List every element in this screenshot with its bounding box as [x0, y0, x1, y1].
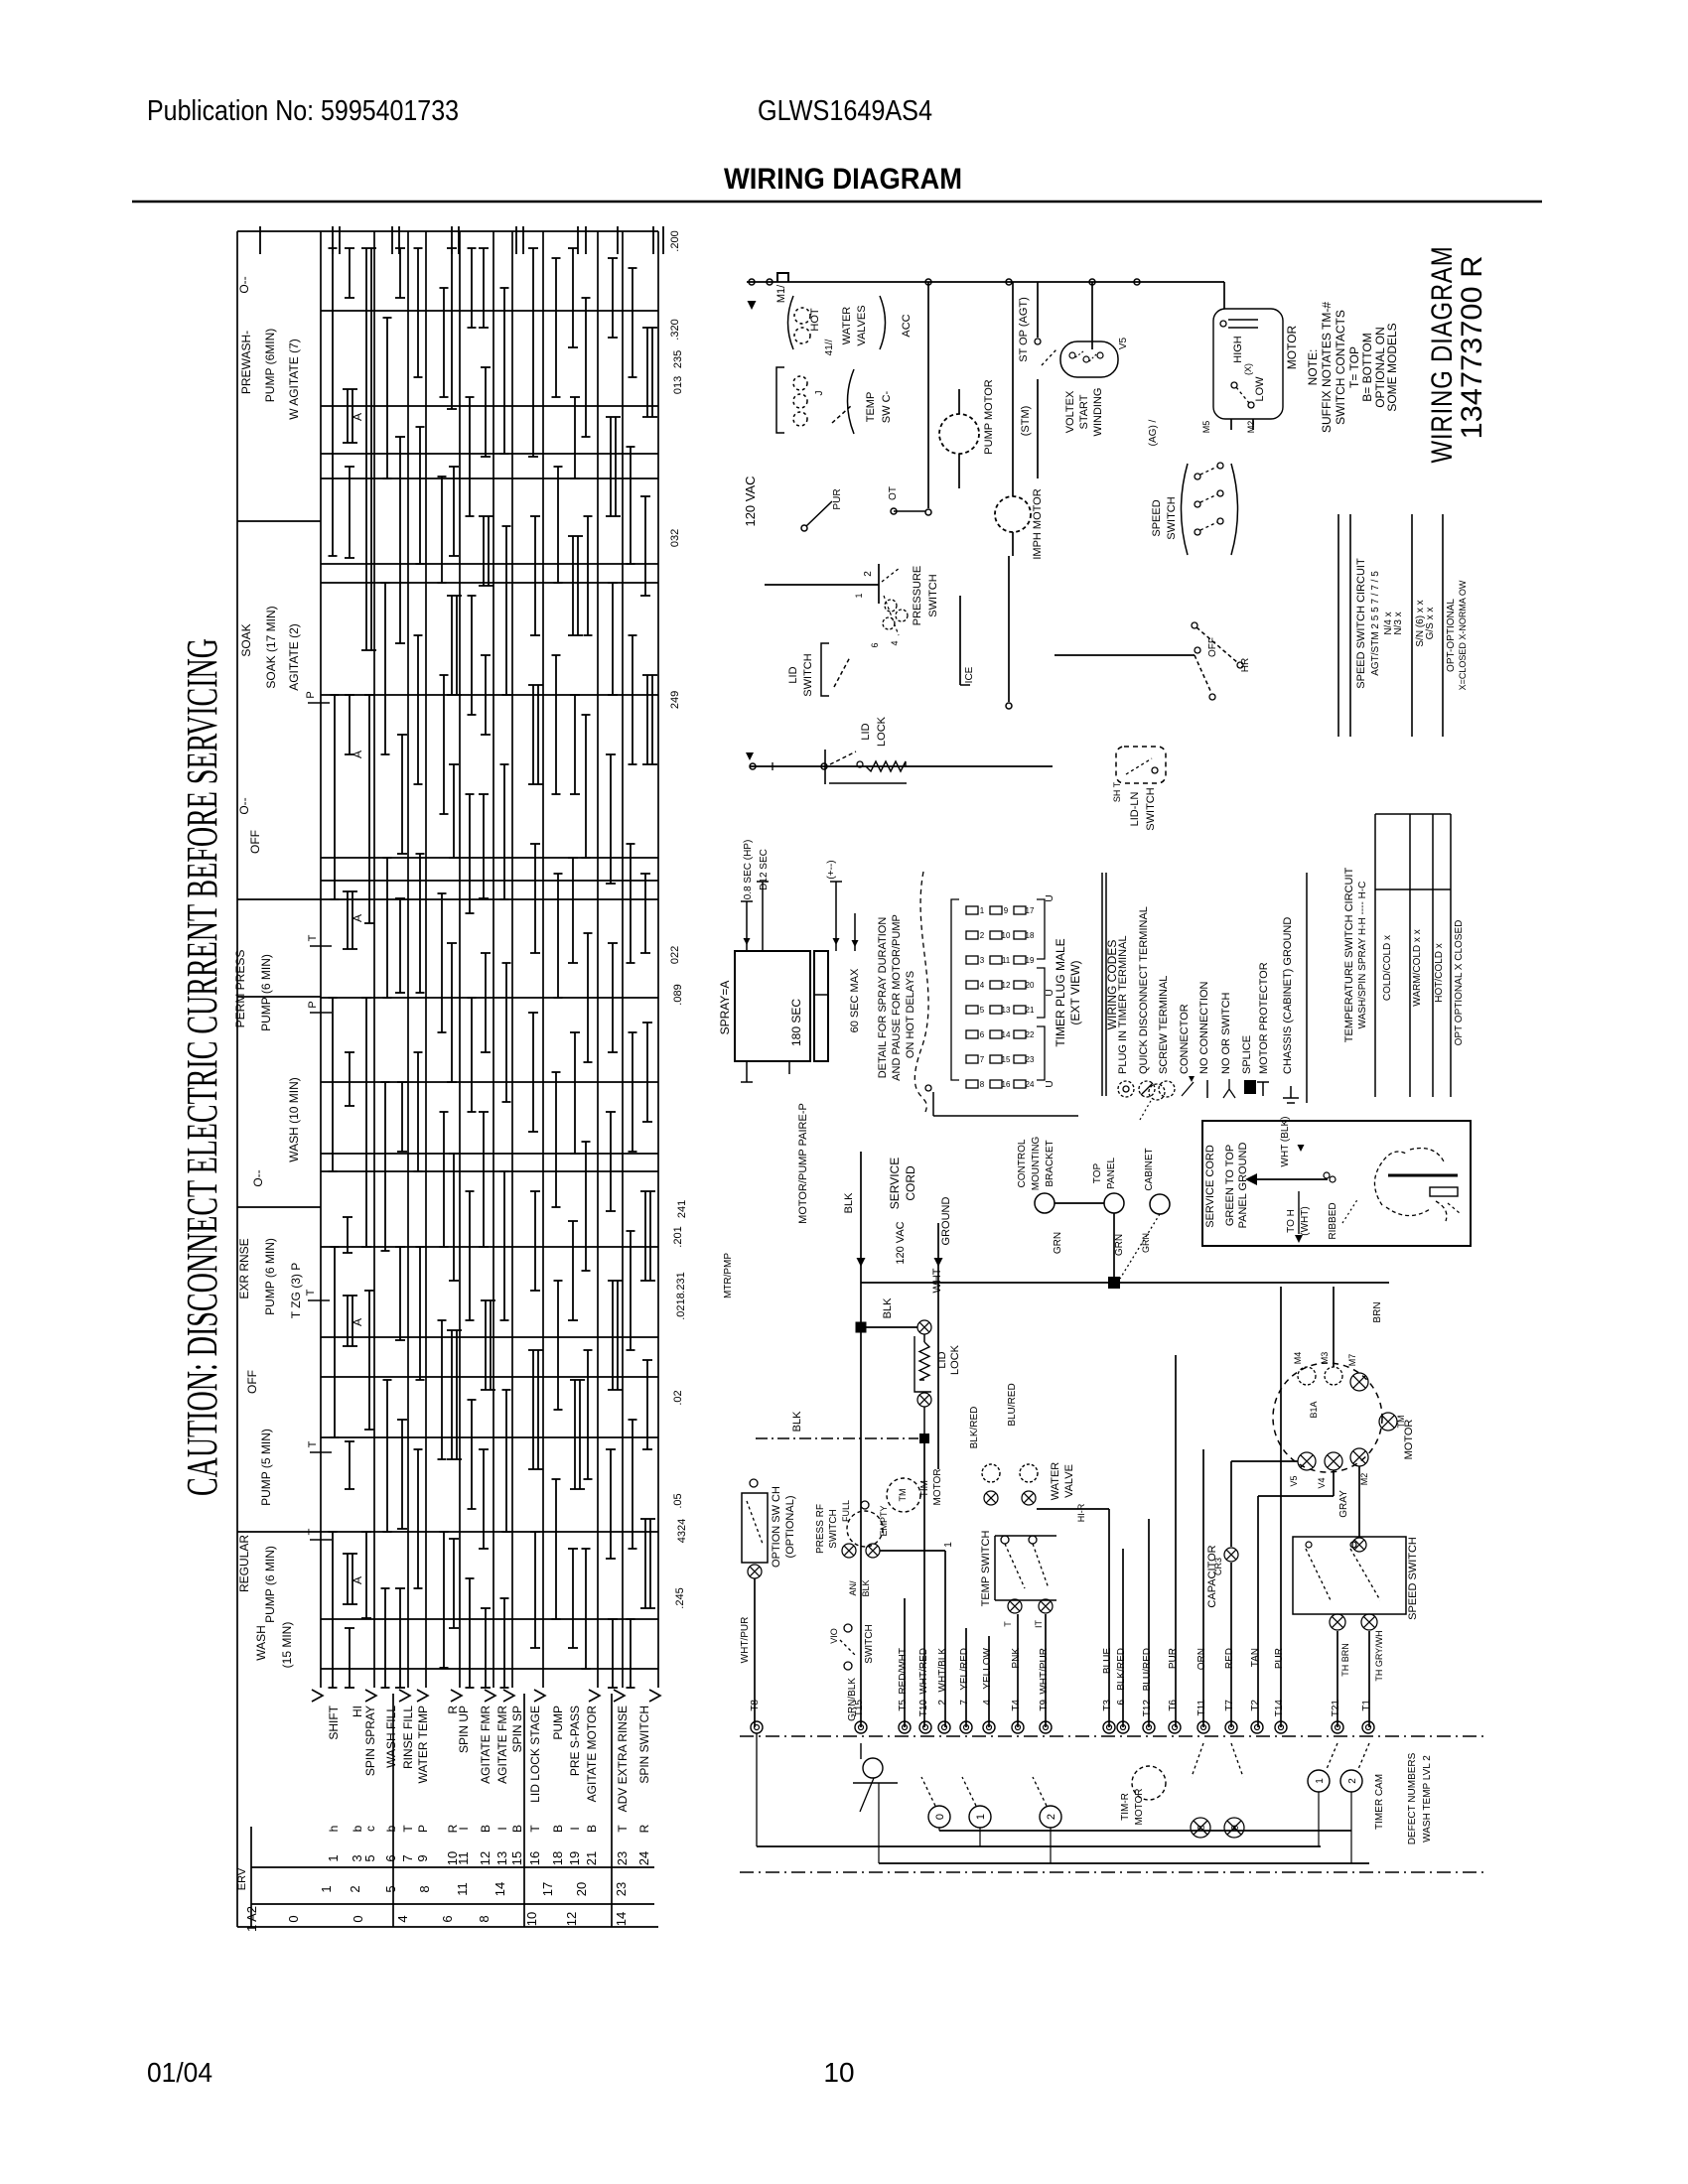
svg-text:GRN: GRN: [1053, 1232, 1063, 1254]
svg-text:HOT: HOT: [809, 308, 821, 332]
svg-text:BLK: BLK: [791, 1411, 803, 1432]
svg-text:GRN: GRN: [1114, 1234, 1125, 1256]
svg-text:T9: T9: [1039, 1700, 1050, 1711]
svg-text:GREEN TO TOP: GREEN TO TOP: [1224, 1145, 1236, 1226]
svg-text:.200: .200: [669, 230, 681, 251]
svg-text:CONNECTOR: CONNECTOR: [1179, 1004, 1191, 1074]
svg-text:b: b: [384, 1825, 398, 1832]
svg-text:WASH FILL: WASH FILL: [384, 1706, 398, 1768]
svg-text:T3: T3: [1102, 1700, 1113, 1711]
svg-text:T4: T4: [1011, 1700, 1022, 1711]
svg-text:PRESS RF: PRESS RF: [815, 1504, 826, 1554]
svg-text:M2: M2: [1246, 421, 1256, 434]
svg-text:CHASSIS (CABINET) GROUND: CHASSIS (CABINET) GROUND: [1282, 917, 1294, 1074]
svg-text:BLUE: BLUE: [1102, 1648, 1113, 1674]
svg-text:21: 21: [1026, 1006, 1035, 1015]
svg-text:10: 10: [1002, 931, 1011, 940]
svg-text:10: 10: [823, 2057, 854, 2088]
svg-text:FULL: FULL: [841, 1500, 851, 1522]
svg-text:6: 6: [1116, 1700, 1127, 1706]
svg-text:(+--): (+--): [826, 860, 837, 879]
svg-text:Publication No: 5995401733: Publication No: 5995401733: [147, 95, 459, 127]
svg-text:B: B: [585, 1825, 599, 1833]
svg-text:(X): (X): [1243, 363, 1253, 375]
svg-text:TIM-R: TIM-R: [1120, 1793, 1131, 1821]
svg-text:PUMP: PUMP: [551, 1706, 565, 1740]
svg-text:SCREW TERMINAL: SCREW TERMINAL: [1158, 976, 1170, 1074]
svg-text:BLU/RED: BLU/RED: [1142, 1648, 1153, 1691]
svg-text:V5: V5: [1289, 1475, 1299, 1486]
svg-text:1: 1: [1315, 1778, 1326, 1784]
svg-text:60 SEC MAX: 60 SEC MAX: [849, 968, 861, 1032]
svg-text:T7: T7: [1224, 1700, 1235, 1711]
svg-text:0: 0: [286, 1915, 301, 1922]
svg-text:2: 2: [937, 1700, 948, 1706]
svg-text:241: 241: [676, 1200, 688, 1218]
svg-text:A: A: [351, 751, 364, 758]
svg-text:15: 15: [1002, 1055, 1011, 1064]
svg-text:17: 17: [540, 1882, 555, 1896]
svg-text:BLU/RED: BLU/RED: [1007, 1383, 1018, 1426]
svg-text:.231: .231: [675, 1272, 687, 1293]
svg-text:WHT/PUR: WHT/PUR: [740, 1617, 751, 1664]
svg-text:19: 19: [567, 1851, 582, 1865]
svg-text:MOUNTING: MOUNTING: [1031, 1137, 1042, 1191]
svg-text:M4: M4: [1293, 1352, 1303, 1365]
svg-text:WATER: WATER: [1050, 1462, 1061, 1501]
svg-text:VALVE: VALVE: [1063, 1464, 1075, 1498]
svg-text:.089: .089: [672, 984, 684, 1005]
svg-text:BLK/RED: BLK/RED: [969, 1407, 980, 1449]
svg-text:SPLICE: SPLICE: [1241, 1035, 1253, 1074]
svg-text:WIRING DIAGRAM: WIRING DIAGRAM: [1426, 246, 1459, 464]
svg-text:SPIN SPRAY: SPIN SPRAY: [363, 1706, 377, 1776]
svg-text:11: 11: [1002, 956, 1011, 965]
svg-text:TO H: TO H: [1286, 1209, 1297, 1233]
svg-text:U: U: [1045, 894, 1055, 901]
svg-text:TEMP SWITCH: TEMP SWITCH: [980, 1531, 992, 1607]
svg-text:START: START: [1078, 394, 1090, 429]
svg-text:WHT: WHT: [931, 1268, 943, 1293]
svg-text:PNK: PNK: [1011, 1648, 1022, 1669]
svg-text:BRACKET: BRACKET: [1045, 1140, 1055, 1186]
svg-text:4: 4: [982, 1700, 993, 1706]
svg-text:OT: OT: [888, 486, 899, 500]
svg-text:20: 20: [574, 1882, 589, 1896]
svg-text:6: 6: [980, 1030, 985, 1039]
svg-text:013: 013: [672, 376, 684, 394]
svg-text:CR3: CR3: [1213, 1558, 1223, 1575]
svg-text:4: 4: [395, 1915, 410, 1922]
svg-text:WASH/SPIN SPRAY H-H ----: WASH/SPIN SPRAY H-H ---- H-C: [1357, 882, 1368, 1029]
svg-text:BLK: BLK: [882, 1297, 894, 1318]
svg-text:8: 8: [1196, 1825, 1207, 1831]
svg-text:2: 2: [980, 931, 985, 940]
svg-text:QUICK DISCONNECT TERMINAL: QUICK DISCONNECT TERMINAL: [1138, 906, 1150, 1074]
svg-text:BLK/RED: BLK/RED: [1116, 1648, 1127, 1691]
svg-text:(STM): (STM): [1020, 406, 1032, 437]
svg-text:PUMP (6MIN): PUMP (6MIN): [263, 329, 277, 402]
svg-text:OPT OPTIONAL X CLOSED: OPT OPTIONAL X CLOSED: [1454, 920, 1465, 1046]
svg-text:SHIFT: SHIFT: [327, 1705, 341, 1739]
svg-text:PLUG IN TIMER TERMINAL: PLUG IN TIMER TERMINAL: [1117, 935, 1129, 1074]
svg-text:TEMP: TEMP: [865, 392, 877, 423]
svg-text:T: T: [616, 1825, 630, 1833]
svg-text:AGITATE MOTOR: AGITATE MOTOR: [585, 1706, 599, 1803]
svg-text:ADV EXTRA RINSE: ADV EXTRA RINSE: [616, 1706, 630, 1812]
svg-text:OFF: OFF: [248, 830, 262, 854]
svg-text:WIRING DIAGRAM: WIRING DIAGRAM: [724, 163, 962, 196]
svg-text:180 SEC: 180 SEC: [789, 999, 803, 1046]
svg-text:J: J: [814, 391, 825, 396]
svg-text:PUMP (5 MIN): PUMP (5 MIN): [259, 1429, 273, 1506]
svg-text:U: U: [1045, 1080, 1055, 1087]
svg-text:B: B: [479, 1825, 492, 1833]
svg-text:SWITCH: SWITCH: [828, 1509, 839, 1548]
svg-text:RED: RED: [1224, 1648, 1235, 1669]
svg-text:PUR: PUR: [1168, 1648, 1179, 1669]
svg-text:M1/: M1/: [775, 284, 787, 303]
svg-text:M3: M3: [1320, 1352, 1330, 1365]
svg-text:LOCK: LOCK: [876, 716, 888, 747]
svg-text:T11: T11: [1196, 1700, 1207, 1716]
svg-text:CAUTION: DISCONNECT ELECTRIC: CAUTION: DISCONNECT ELECTRIC CURRENT BEF…: [178, 638, 226, 1496]
svg-text:14: 14: [614, 1912, 629, 1926]
svg-text:A: A: [351, 1318, 364, 1326]
svg-text:8: 8: [980, 1080, 985, 1089]
svg-text:14: 14: [492, 1882, 507, 1896]
svg-text:SWITCH CONTACTS: SWITCH CONTACTS: [1334, 310, 1347, 425]
svg-text:MTR/PMP: MTR/PMP: [723, 1253, 734, 1298]
svg-text:24: 24: [1026, 1080, 1035, 1089]
svg-text:LID: LID: [787, 666, 799, 683]
svg-text:B: B: [510, 1825, 524, 1833]
svg-text:LID LOCK STAGE: LID LOCK STAGE: [528, 1706, 542, 1803]
svg-text:0: 0: [351, 1915, 365, 1922]
svg-text:I: I: [495, 1827, 509, 1830]
svg-text:T2: T2: [1250, 1700, 1261, 1711]
svg-text:PUR: PUR: [1274, 1648, 1285, 1669]
svg-text:BLK: BLK: [843, 1192, 855, 1213]
svg-text:15: 15: [509, 1851, 524, 1865]
svg-text:SWITCH: SWITCH: [927, 574, 939, 616]
svg-text:2: 2: [348, 1885, 362, 1892]
svg-text:WASH TEMP LVL 2: WASH TEMP LVL 2: [1422, 1755, 1433, 1843]
svg-text:OFF: OFF: [245, 1370, 259, 1394]
svg-text:5: 5: [383, 1885, 398, 1892]
svg-text:T: T: [307, 934, 319, 941]
svg-text:(15 MIN): (15 MIN): [280, 1622, 294, 1669]
svg-text:TOP: TOP: [1092, 1162, 1103, 1183]
svg-text:16: 16: [1002, 1080, 1011, 1089]
svg-text:ERV: ERV: [236, 1867, 248, 1890]
svg-text:B= BOTTOM: B= BOTTOM: [1360, 333, 1374, 401]
svg-text:T: T: [307, 1528, 319, 1535]
svg-text:PREWASH-: PREWASH-: [239, 331, 253, 394]
svg-text:SERVICE CORD: SERVICE CORD: [1204, 1145, 1216, 1228]
svg-text:TAN: TAN: [1250, 1648, 1261, 1667]
svg-text:TIM-: TIM-: [919, 1477, 930, 1498]
svg-text:TH BRN: TH BRN: [1340, 1643, 1350, 1677]
svg-text:21: 21: [584, 1851, 599, 1865]
svg-text:DEFECT NUMBERS: DEFECT NUMBERS: [1407, 1752, 1418, 1844]
svg-text:WASH (10 MIN): WASH (10 MIN): [287, 1077, 301, 1162]
svg-text:ICE: ICE: [964, 666, 975, 683]
svg-text:GROUND: GROUND: [940, 1197, 952, 1246]
svg-text:022: 022: [669, 946, 681, 964]
svg-text:PUMP (6 MIN): PUMP (6 MIN): [263, 1238, 277, 1315]
svg-text:WINDING: WINDING: [1092, 388, 1104, 437]
svg-text:10: 10: [524, 1912, 539, 1926]
svg-text:YELLOW: YELLOW: [982, 1647, 993, 1689]
svg-text:1: 1: [326, 1854, 341, 1861]
svg-text:13: 13: [1002, 1006, 1011, 1015]
svg-text:VIO: VIO: [829, 1628, 839, 1644]
svg-text:MOTOR: MOTOR: [1134, 1788, 1145, 1825]
svg-text:A: A: [351, 1576, 364, 1584]
svg-text:EMPTY: EMPTY: [879, 1505, 889, 1536]
svg-text:235: 235: [672, 350, 684, 368]
svg-text:SPEED: SPEED: [1151, 499, 1163, 536]
svg-text:AGT/STM 2 5 5 7 / 7 /: AGT/STM 2 5 5 7 / 7 / 5: [1370, 571, 1381, 676]
svg-text:CABINET: CABINET: [1144, 1148, 1155, 1190]
svg-text:ACC: ACC: [901, 314, 913, 337]
svg-text:AGITATE FMR: AGITATE FMR: [495, 1706, 509, 1784]
svg-text:WHT (BLK): WHT (BLK): [1280, 1117, 1291, 1167]
svg-text:M2: M2: [1359, 1473, 1369, 1486]
svg-text:41//: 41//: [824, 339, 835, 355]
svg-text:T: T: [528, 1825, 542, 1833]
svg-text:LOCK: LOCK: [949, 1344, 961, 1375]
svg-text:VALVES: VALVES: [856, 305, 868, 345]
svg-text:WATER: WATER: [841, 307, 853, 345]
svg-text:SPEED SWITCH: SPEED SWITCH: [1407, 1537, 1419, 1620]
svg-text:B1A: B1A: [1309, 1401, 1319, 1418]
svg-text:AND PAUSE FOR MOTOR/PUMP: AND PAUSE FOR MOTOR/PUMP: [891, 914, 903, 1081]
svg-text:22: 22: [1026, 1030, 1035, 1039]
svg-text:B: B: [551, 1825, 565, 1833]
svg-text:HIGH: HIGH: [1232, 336, 1244, 363]
svg-text:.05: .05: [672, 1493, 684, 1508]
svg-text:EXR RNSE: EXR RNSE: [237, 1238, 251, 1298]
svg-text:c: c: [363, 1826, 377, 1832]
svg-text:120 VAC: 120 VAC: [895, 1221, 907, 1264]
svg-text:6: 6: [440, 1915, 455, 1922]
svg-text:P: P: [305, 691, 317, 698]
svg-text:LID-LN: LID-LN: [1129, 792, 1141, 827]
svg-text:14: 14: [1002, 1030, 1011, 1039]
svg-text:4: 4: [890, 640, 900, 645]
svg-text:HI-R: HI-R: [1076, 1503, 1086, 1522]
svg-text:PANEL: PANEL: [1106, 1158, 1117, 1189]
svg-text:0: 0: [934, 1814, 946, 1820]
svg-text:23: 23: [615, 1851, 630, 1865]
svg-text:1: 1: [975, 1814, 987, 1820]
svg-text:P: P: [416, 1825, 430, 1833]
svg-text:19: 19: [1026, 956, 1035, 965]
svg-text:SH T: SH T: [1112, 781, 1122, 802]
svg-text:GLWS1649AS4: GLWS1649AS4: [758, 95, 932, 127]
svg-text:SWITCH: SWITCH: [864, 1624, 875, 1663]
svg-text:A: A: [351, 413, 364, 421]
svg-text:TM: TM: [898, 1489, 908, 1502]
svg-text:T21: T21: [1331, 1700, 1341, 1717]
svg-text:7: 7: [400, 1854, 415, 1861]
svg-text:VOLTEX: VOLTEX: [1064, 390, 1076, 433]
svg-text:9: 9: [1230, 1825, 1241, 1831]
svg-text:LID: LID: [860, 723, 872, 740]
svg-text:RIBBED: RIBBED: [1328, 1202, 1338, 1239]
svg-text:HI: HI: [351, 1706, 364, 1717]
svg-text:.245: .245: [674, 1587, 686, 1608]
svg-text:2: 2: [1347, 1778, 1358, 1784]
svg-text:IT: IT: [1034, 1619, 1044, 1628]
svg-text:T= TOP: T= TOP: [1347, 346, 1361, 388]
svg-text:(OPTIONAL): (OPTIONAL): [784, 1496, 796, 1559]
svg-text:P: P: [307, 1001, 319, 1008]
svg-text:23: 23: [614, 1882, 629, 1896]
svg-text:A: A: [351, 914, 364, 922]
svg-text:249: 249: [669, 691, 681, 709]
svg-text:OPTION SW CH: OPTION SW CH: [771, 1486, 782, 1568]
svg-text:CORD: CORD: [904, 1165, 917, 1201]
svg-text:SOAK: SOAK: [239, 623, 253, 656]
svg-text:NOTE:: NOTE:: [1306, 349, 1320, 386]
svg-text:12: 12: [564, 1912, 579, 1926]
svg-text:T: T: [307, 1440, 319, 1447]
svg-text:V5: V5: [1118, 337, 1129, 349]
svg-text:WHT/BLK: WHT/BLK: [937, 1648, 948, 1693]
svg-text:2: 2: [863, 571, 874, 577]
svg-text:NO OR SWITCH: NO OR SWITCH: [1220, 992, 1232, 1074]
svg-text:GRN/BLK: GRN/BLK: [847, 1678, 858, 1721]
svg-text:SOAK (17 MIN): SOAK (17 MIN): [264, 606, 278, 688]
svg-text:GRN: GRN: [1141, 1233, 1151, 1253]
svg-text:O--: O--: [237, 276, 251, 293]
svg-text:SWITCH: SWITCH: [802, 653, 814, 696]
svg-text:PRE S-PASS: PRE S-PASS: [568, 1706, 582, 1776]
svg-text:SERVICE: SERVICE: [888, 1158, 902, 1209]
svg-text:T5: T5: [898, 1700, 909, 1711]
svg-text:(AG) /: (AG) /: [1148, 419, 1159, 446]
svg-text:8: 8: [477, 1915, 492, 1922]
svg-text:1: 1: [980, 906, 985, 915]
svg-text:NO CONNECTION: NO CONNECTION: [1198, 981, 1210, 1074]
svg-text:T: T: [401, 1825, 415, 1833]
svg-text:5: 5: [980, 1006, 985, 1015]
svg-text:T: T: [305, 1289, 317, 1296]
svg-text:SPIN UP: SPIN UP: [457, 1706, 471, 1753]
svg-text:18: 18: [550, 1851, 565, 1865]
svg-text:SWITCH: SWITCH: [1166, 496, 1178, 539]
svg-text:h: h: [327, 1826, 341, 1833]
svg-text:ORN: ORN: [1196, 1648, 1207, 1670]
svg-text:9: 9: [1004, 906, 1009, 915]
svg-text:(WHT): (WHT): [1300, 1206, 1311, 1235]
svg-text:4: 4: [980, 981, 985, 990]
svg-text:18: 18: [1026, 931, 1035, 940]
svg-text:1: 1: [319, 1885, 334, 1892]
svg-text:M7: M7: [1347, 1354, 1357, 1367]
svg-text:SUFFIX NOTATES TM-#: SUFFIX NOTATES TM-#: [1320, 302, 1334, 433]
svg-text:I: I: [568, 1827, 582, 1830]
svg-text:RED/WHT: RED/WHT: [898, 1648, 909, 1695]
svg-text:.02: .02: [672, 1390, 684, 1405]
svg-text:24: 24: [636, 1851, 651, 1865]
svg-text:T12: T12: [1142, 1700, 1153, 1717]
svg-text:13: 13: [494, 1851, 509, 1865]
svg-text:CONTROL: CONTROL: [1017, 1139, 1028, 1187]
svg-text:ON HOT DELAYS: ON HOT DELAYS: [905, 971, 916, 1058]
svg-text:PERM PRESS: PERM PRESS: [233, 950, 247, 1028]
svg-text:01/04: 01/04: [147, 2057, 212, 2088]
svg-text:MOTOR: MOTOR: [1403, 1420, 1415, 1460]
svg-text:AGITATE (2): AGITATE (2): [287, 623, 301, 691]
svg-text:120 VAC: 120 VAC: [743, 476, 758, 526]
svg-text:W AGITATE (7): W AGITATE (7): [287, 339, 301, 420]
svg-text:(EXT VIEW): (EXT VIEW): [1068, 960, 1082, 1024]
svg-text:12: 12: [478, 1851, 492, 1865]
svg-text:7: 7: [980, 1055, 985, 1064]
svg-text:PUMP (6 MIN): PUMP (6 MIN): [259, 954, 273, 1031]
svg-text:TIMER CAM: TIMER CAM: [1374, 1774, 1385, 1830]
svg-text:MOTOR PROTECTOR: MOTOR PROTECTOR: [1258, 962, 1270, 1074]
svg-text:T ZG (3) P: T ZG (3) P: [289, 1263, 303, 1318]
svg-text:.201: .201: [672, 1226, 684, 1247]
svg-text:COLD/COLD x: COLD/COLD x: [1382, 935, 1393, 1001]
svg-text:6: 6: [870, 642, 880, 647]
svg-text:PRESSURE: PRESSURE: [912, 566, 923, 626]
svg-text:b: b: [351, 1825, 364, 1832]
svg-text:SPRAY=A: SPRAY=A: [718, 981, 732, 1035]
svg-text:SWITCH: SWITCH: [1145, 787, 1157, 830]
svg-text:WATER TEMP: WATER TEMP: [416, 1706, 430, 1783]
svg-text:OFF: OFF: [1207, 637, 1218, 657]
svg-text:TEMPERATURE SWITCH CIRCUIT: TEMPERATURE SWITCH CIRCUIT: [1343, 868, 1355, 1043]
svg-text:0.8 SEC (HP): 0.8 SEC (HP): [743, 840, 754, 900]
svg-text:PUMP MOTOR: PUMP MOTOR: [983, 379, 995, 454]
svg-text:PUMP (6 MIN): PUMP (6 MIN): [263, 1546, 277, 1623]
svg-text:T14: T14: [1274, 1700, 1285, 1717]
svg-text:RINSE FILL: RINSE FILL: [401, 1706, 415, 1769]
svg-text:23: 23: [1026, 1055, 1035, 1064]
svg-text:SW C-: SW C-: [881, 390, 893, 423]
svg-text:SPEED SWITCH CIRCUIT: SPEED SWITCH CIRCUIT: [1355, 558, 1367, 689]
svg-text:REGULAR: REGULAR: [237, 1535, 251, 1592]
svg-text:8: 8: [417, 1885, 432, 1892]
svg-text:BLK: BLK: [861, 1579, 871, 1596]
svg-text:GRAY: GRAY: [1338, 1490, 1349, 1518]
svg-text:11: 11: [456, 1851, 471, 1865]
svg-text:7: 7: [959, 1700, 970, 1706]
svg-text:WASH: WASH: [254, 1625, 268, 1661]
svg-text:M5: M5: [1201, 421, 1211, 434]
svg-text:AN/: AN/: [848, 1580, 858, 1596]
svg-text:TIMER PLUG MALE: TIMER PLUG MALE: [1054, 938, 1067, 1046]
svg-text:YEL/RED: YEL/RED: [959, 1648, 970, 1691]
svg-text:.320: .320: [669, 319, 681, 340]
svg-text:D12 SEC: D12 SEC: [759, 849, 770, 890]
svg-text:IMPH MOTOR: IMPH MOTOR: [1032, 488, 1044, 559]
svg-text:SPIN SWITCH: SPIN SWITCH: [637, 1706, 651, 1784]
svg-text:5: 5: [362, 1854, 377, 1861]
svg-text:DETAIL FOR SPRAY DURATION: DETAIL FOR SPRAY DURATION: [877, 917, 889, 1079]
svg-text:I: I: [457, 1827, 471, 1830]
svg-text:G/S x x: G/S x x: [1425, 608, 1436, 640]
svg-text:MOTOR: MOTOR: [932, 1468, 943, 1505]
svg-text:16: 16: [527, 1851, 542, 1865]
svg-text:WHT/PUR: WHT/PUR: [1039, 1648, 1050, 1695]
